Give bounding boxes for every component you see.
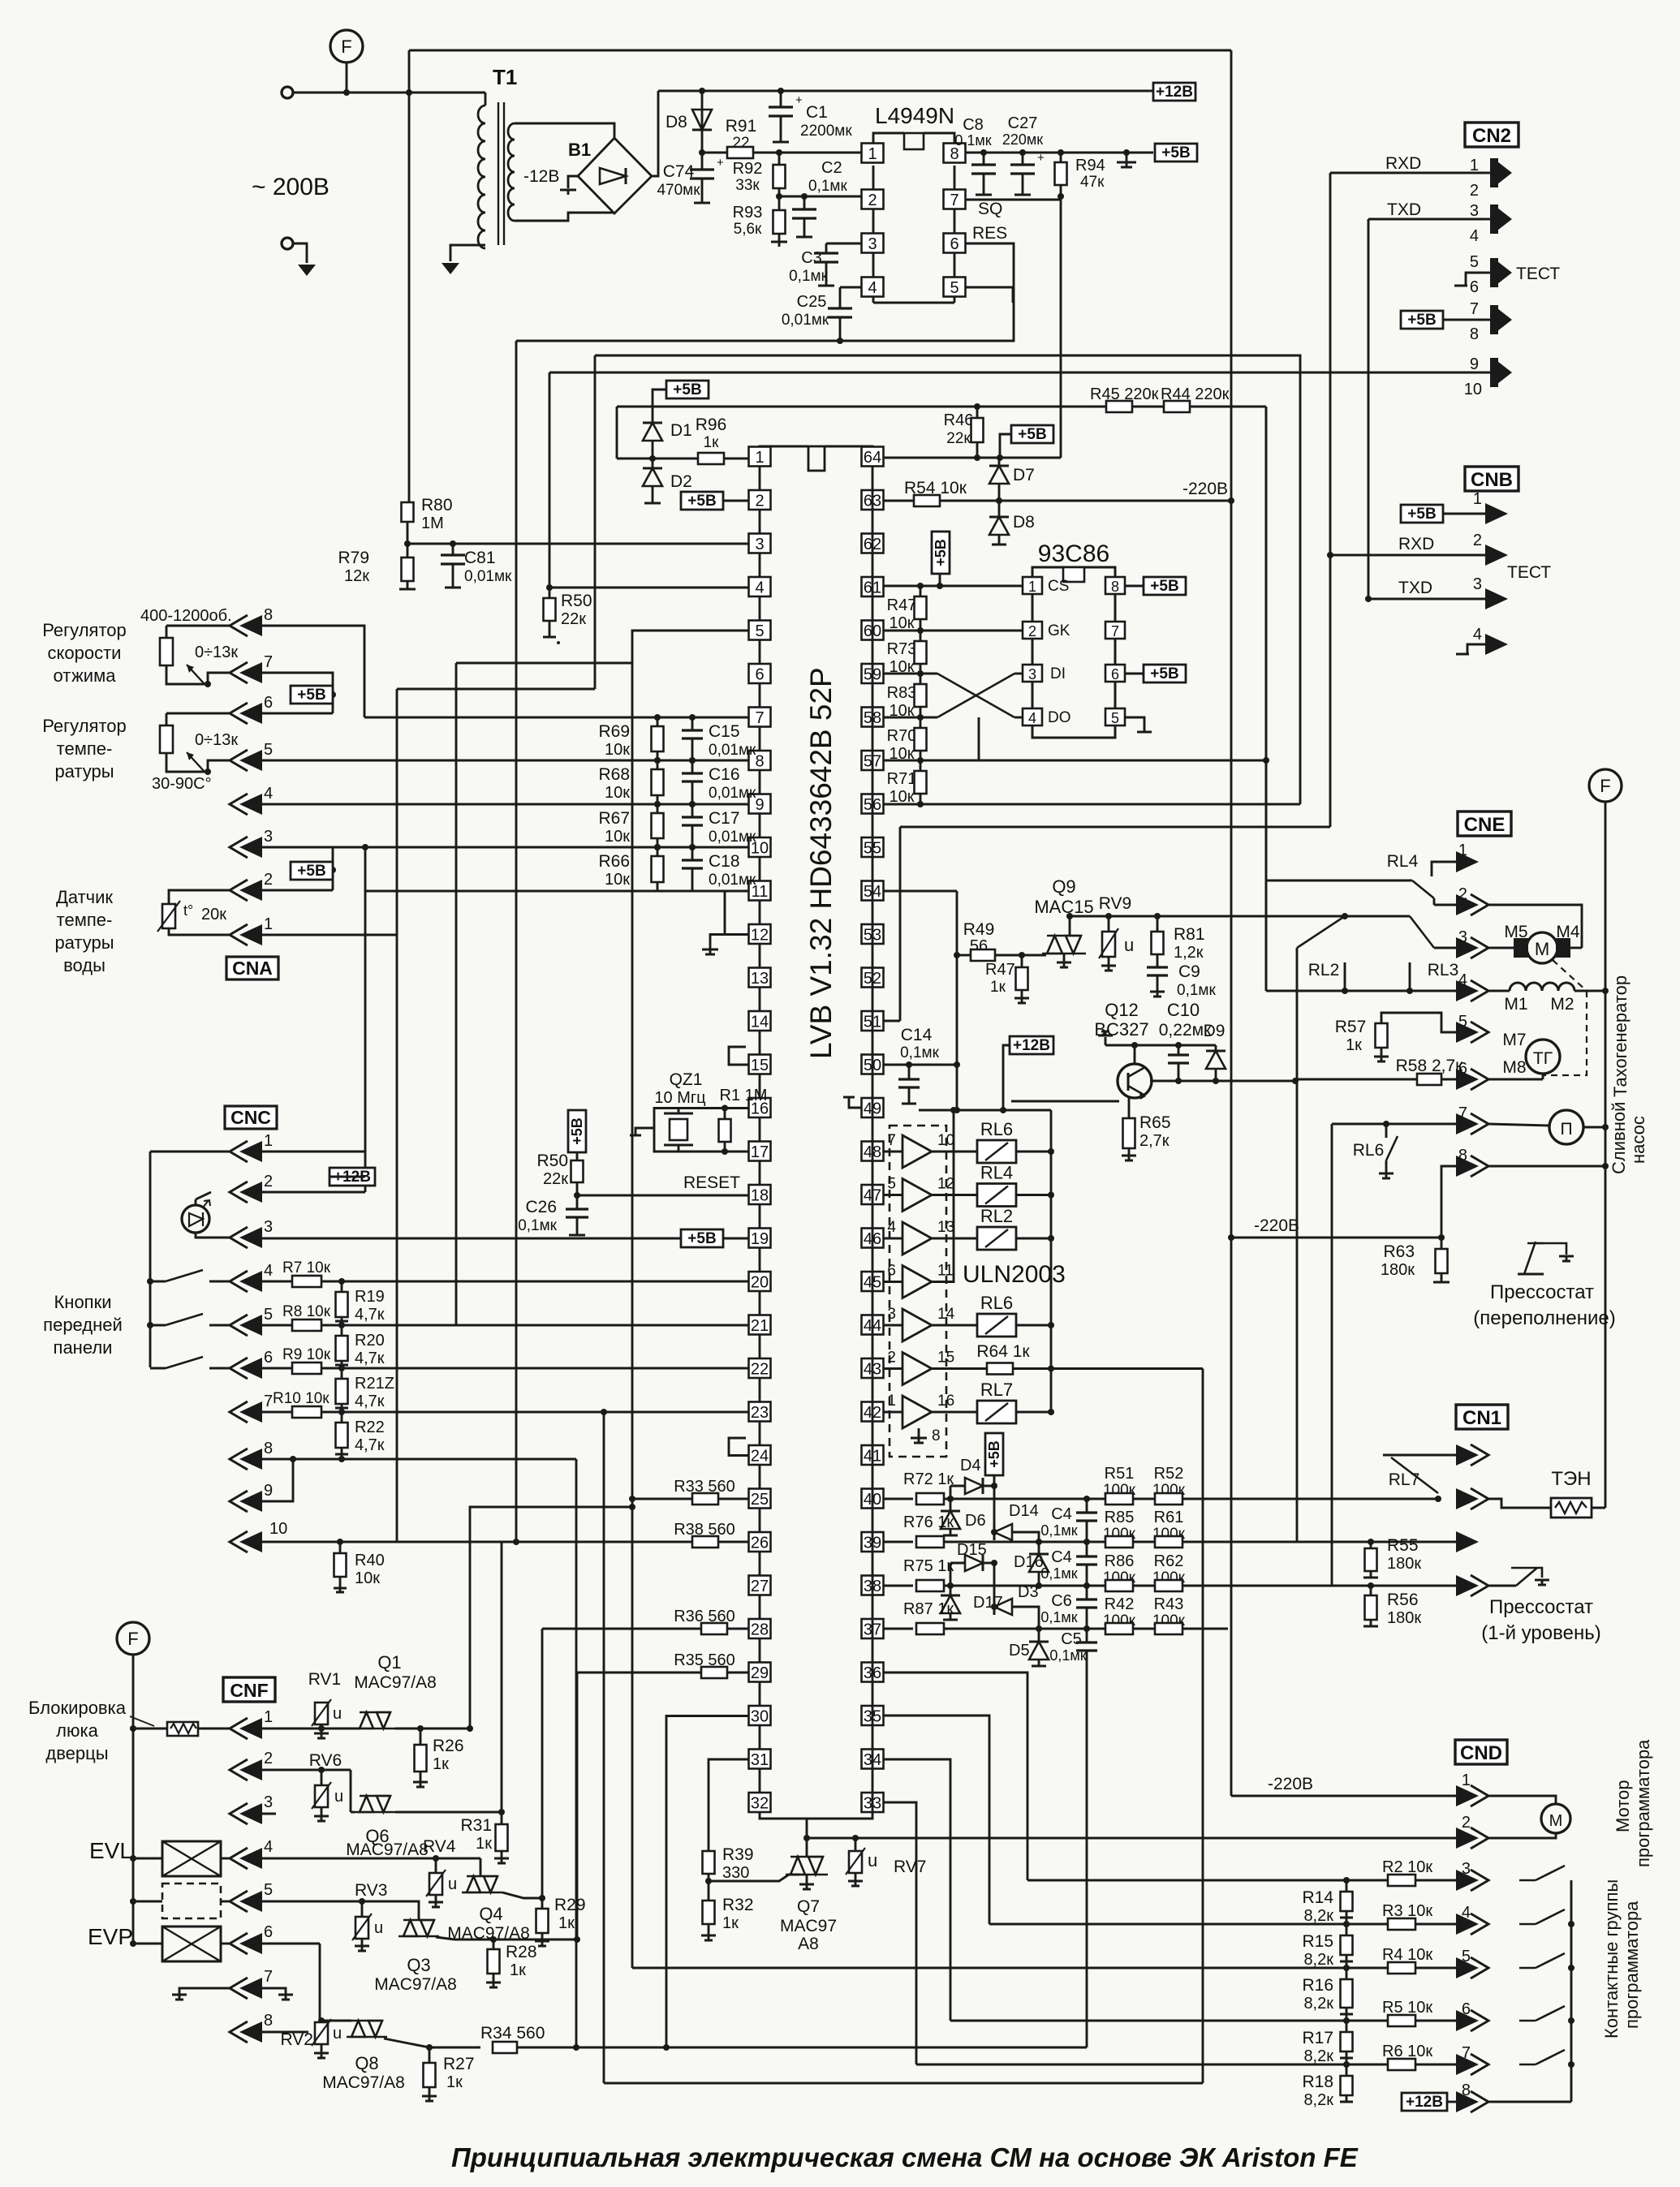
svg-text:R49: R49 [963, 920, 995, 939]
svg-text:5: 5 [1111, 710, 1119, 726]
wire pin10b line [365, 890, 748, 893]
wire CNE8 line [1441, 1166, 1456, 1238]
pin 62 U2 [862, 534, 884, 553]
door lock heater [130, 1725, 136, 1732]
svg-text:8: 8 [264, 2012, 273, 2030]
pin 31 U2 [749, 1750, 771, 1769]
svg-text:22к: 22к [543, 1170, 568, 1188]
wire pin11 pin12 bracket [725, 891, 748, 935]
wire pin34 route [883, 1759, 950, 2021]
wire bottom bus CND6 [950, 2020, 1346, 2022]
connector CNC box [225, 1106, 277, 1129]
pin 4 U2 [749, 577, 771, 596]
svg-text:C5: C5 [1061, 1630, 1082, 1648]
pin 46 U2 [862, 1229, 884, 1248]
svg-text:R18: R18 [1302, 2073, 1333, 2091]
svg-text:14: 14 [937, 1306, 955, 1323]
power +5B pin19 [681, 1229, 723, 1247]
connector CNC pin8 [230, 1449, 248, 1470]
pin 20 U2 [749, 1272, 771, 1291]
switch programmer 5 [1519, 1953, 1571, 1968]
pin 1 L4949 [862, 144, 884, 163]
svg-text:C14: C14 [901, 1026, 933, 1044]
svg-text:400-1200об.: 400-1200об. [140, 607, 232, 625]
connector CN1 box [1456, 1405, 1508, 1429]
svg-text:R93: R93 [733, 204, 763, 222]
svg-text:C1: C1 [806, 103, 828, 122]
svg-text:R73: R73 [887, 640, 917, 658]
svg-text:R28: R28 [506, 1943, 537, 1961]
svg-text:5: 5 [887, 1176, 896, 1193]
connector CNF pin4 [230, 1848, 248, 1869]
svg-text:64: 64 [864, 449, 881, 467]
svg-text:RV1: RV1 [308, 1670, 341, 1689]
svg-text:R2 10к: R2 10к [1382, 1858, 1432, 1876]
svg-text:10: 10 [937, 1132, 954, 1149]
svg-text:EVL: EVL [89, 1838, 132, 1863]
svg-text:Q9: Q9 [1052, 876, 1075, 897]
svg-text:+5B: +5B [933, 539, 949, 566]
pin 33 U2 [862, 1793, 884, 1812]
svg-text:1: 1 [264, 1708, 273, 1726]
svg-text:4: 4 [264, 1262, 273, 1280]
svg-text:R15: R15 [1302, 1932, 1333, 1951]
svg-text:10: 10 [1464, 381, 1482, 398]
svg-text:SQ: SQ [978, 200, 1002, 218]
svg-text:22: 22 [751, 1361, 769, 1379]
svg-text:8,2к: 8,2к [1303, 1907, 1333, 1925]
connector CNC pin3 [230, 1227, 248, 1248]
svg-text:3: 3 [1458, 928, 1467, 946]
svg-text:7: 7 [950, 192, 958, 209]
svg-text:6: 6 [887, 1263, 896, 1280]
svg-text:M1: M1 [1504, 995, 1527, 1014]
svg-text:RL6: RL6 [980, 1293, 1013, 1313]
wire RES bus [516, 243, 1014, 341]
connector CNA pin8 [230, 615, 248, 636]
svg-text:2,7к: 2,7к [1139, 1132, 1170, 1150]
wire TXD CNB [1368, 598, 1485, 601]
svg-text:10к: 10к [605, 784, 630, 802]
valve EVL [130, 1855, 136, 1862]
svg-text:D6: D6 [965, 1512, 986, 1530]
svg-text:R17: R17 [1302, 2029, 1333, 2047]
wire CNF4 line [221, 1858, 230, 1860]
svg-text:R67: R67 [598, 809, 630, 828]
svg-text:1к: 1к [476, 1835, 492, 1853]
pin 37 U2 [862, 1619, 884, 1638]
node F right circle [1589, 769, 1622, 802]
svg-text:EVP: EVP [88, 1924, 133, 1949]
wire RXD line [1330, 172, 1485, 174]
svg-text:CNC: CNC [230, 1107, 271, 1128]
pin 4 L4949 [862, 278, 884, 297]
svg-text:4,7к: 4,7к [355, 1393, 385, 1410]
wire top border [409, 50, 1231, 52]
wire CND3 line [1346, 1879, 1456, 1882]
svg-text:R46: R46 [944, 411, 974, 429]
IC U4 ULN2003 dashed box [890, 1126, 946, 1457]
wire CNF7 stubs [179, 1988, 230, 1995]
connector CNA pin3 [230, 837, 248, 858]
wire bottom bus CND3 [1027, 1879, 1346, 1882]
svg-text:17: 17 [751, 1143, 769, 1161]
wire pin56 line [883, 803, 1300, 806]
power +5B top [1155, 144, 1197, 161]
svg-text:19: 19 [751, 1230, 769, 1248]
svg-text:9: 9 [1470, 355, 1479, 373]
relay contact right [1345, 915, 1410, 918]
wire RV9 rail [1070, 915, 1345, 918]
svg-text:R26: R26 [433, 1737, 464, 1755]
svg-text:33к: 33к [735, 177, 760, 194]
svg-text:30: 30 [751, 1708, 769, 1726]
svg-text:6: 6 [1470, 278, 1479, 296]
power +12B CND8 [1402, 2093, 1447, 2111]
svg-text:~ 200B: ~ 200B [252, 174, 330, 200]
svg-text:(1-й уровень): (1-й уровень) [1481, 1622, 1600, 1644]
svg-text:TXD: TXD [1387, 200, 1421, 219]
svg-text:22к: 22к [561, 610, 586, 628]
svg-text:+5B: +5B [297, 863, 325, 880]
svg-text:M8: M8 [1502, 1058, 1526, 1077]
connector CNC pin10 [230, 1531, 248, 1552]
wire CNA7 to +5B [262, 673, 333, 713]
svg-text:2: 2 [868, 192, 877, 209]
svg-text:R47: R47 [887, 596, 917, 614]
wire CNC9 [262, 1459, 293, 1501]
svg-text:1: 1 [755, 449, 764, 467]
wire CNE7 to pump [1488, 1124, 1550, 1126]
wire pin8/+5V line [966, 152, 1153, 154]
svg-text:6: 6 [264, 694, 273, 712]
connector CNC pin6 [230, 1358, 248, 1379]
connector CNA pin6 [230, 703, 248, 724]
pin 6 93C86 [1105, 665, 1125, 682]
wire CND7 line [1346, 2064, 1456, 2066]
svg-text:10: 10 [269, 1520, 287, 1538]
wire pin57 to x1560 [979, 760, 1266, 762]
svg-text:1: 1 [264, 915, 273, 933]
svg-text:R69: R69 [598, 722, 630, 741]
switch programmer 6 [1519, 2006, 1571, 2021]
wire +12B box lead [330, 1176, 365, 1178]
wire CNE2 to motor M4 [1488, 905, 1582, 941]
pin 26 U2 [749, 1532, 771, 1552]
varistor RV3 [359, 1898, 365, 1905]
svg-text:ратуры: ратуры [54, 761, 114, 781]
svg-text:2: 2 [264, 871, 273, 889]
svg-text:RL4: RL4 [1387, 852, 1419, 871]
svg-text:R22: R22 [355, 1419, 385, 1436]
svg-text:1: 1 [1473, 490, 1482, 508]
valve EVP [130, 1940, 136, 1947]
svg-text:Q1: Q1 [377, 1652, 401, 1673]
svg-text:1: 1 [264, 1132, 273, 1150]
svg-text:4: 4 [1028, 710, 1036, 726]
svg-text:RL6: RL6 [1353, 1141, 1385, 1160]
svg-text:3: 3 [1473, 575, 1482, 593]
svg-text:Прессостат: Прессостат [1490, 1281, 1594, 1303]
pin 12 U2 [749, 924, 771, 944]
svg-text:D7: D7 [1013, 466, 1035, 484]
svg-text:+5B: +5B [1407, 312, 1436, 329]
svg-text:программатора: программатора [1633, 1739, 1653, 1867]
svg-text:1: 1 [1462, 1772, 1471, 1789]
wire CN1-1 line [1383, 1454, 1456, 1457]
svg-text:6: 6 [755, 666, 764, 684]
wire CN1-2 line [1456, 1488, 1479, 1509]
svg-text:R58 2,7к: R58 2,7к [1396, 1057, 1464, 1075]
wire CNF6 line [262, 1943, 320, 1945]
wire bus y459 to CN2 9/10 [549, 372, 1490, 374]
svg-text:Тахогенератор: Тахогенератор [1610, 975, 1630, 1097]
svg-text:R42: R42 [1105, 1595, 1135, 1613]
svg-text:0,1мк: 0,1мк [1040, 1565, 1077, 1582]
wire Q12 base [1011, 1100, 1119, 1103]
wire DI line [1014, 673, 1023, 675]
svg-text:R71: R71 [887, 770, 917, 788]
svg-text:+12B: +12B [1156, 84, 1193, 101]
pin 53 U2 [862, 924, 884, 944]
svg-text:0,1мк: 0,1мк [1040, 1522, 1077, 1539]
svg-text:24: 24 [751, 1448, 769, 1466]
svg-text:D9: D9 [1204, 1022, 1226, 1040]
svg-text:R65: R65 [1139, 1113, 1171, 1132]
svg-text:RV7: RV7 [894, 1858, 926, 1876]
svg-text:4: 4 [264, 1838, 273, 1856]
wire pin31 to R39 [709, 1759, 748, 1851]
wire y1857 Q1 gate bus [470, 1507, 632, 1729]
wire CNA1 line [262, 934, 397, 936]
svg-text:+5B: +5B [1018, 426, 1046, 443]
svg-text:M7: M7 [1502, 1031, 1526, 1049]
svg-text:ТЭН: ТЭН [1551, 1468, 1591, 1490]
wire bus y849 [397, 688, 595, 691]
svg-text:панели: панели [54, 1337, 113, 1358]
power +5B vertical eeprom [932, 532, 950, 574]
svg-text:Q12: Q12 [1105, 1000, 1139, 1020]
svg-text:1к: 1к [446, 2073, 463, 2091]
svg-text:CN2: CN2 [1472, 125, 1511, 147]
dashed tacho box [1553, 960, 1587, 991]
svg-text:R14: R14 [1302, 1888, 1333, 1907]
svg-text:RXD: RXD [1385, 154, 1421, 173]
pin 56 U2 [862, 794, 884, 814]
svg-text:R63: R63 [1383, 1242, 1415, 1261]
wire CNE7 line [1332, 1123, 1456, 1126]
svg-text:330: 330 [722, 1864, 749, 1882]
svg-text:0,1мк: 0,1мк [954, 132, 991, 149]
svg-text:0,1мк: 0,1мк [900, 1044, 939, 1061]
wire CNC left bracket [149, 1152, 152, 1367]
switch button6 [150, 1367, 166, 1370]
wire bus y501 R45 R44 [617, 406, 1266, 408]
wire Q3 gate join [436, 1937, 454, 1939]
svg-text:5: 5 [1470, 253, 1479, 271]
triac Q8 [347, 2036, 387, 2038]
wire pin5 jog [456, 631, 748, 663]
svg-text:0,1мк: 0,1мк [1040, 1609, 1077, 1625]
svg-text:3: 3 [868, 235, 877, 253]
svg-text:D5: D5 [1009, 1642, 1030, 1660]
wire pin15 stub [729, 1047, 748, 1065]
svg-text:+12В: +12В [1013, 1037, 1050, 1054]
svg-text:R96: R96 [696, 415, 727, 434]
svg-text:MAC97/A8: MAC97/A8 [374, 1975, 457, 1994]
node F bottom circle [117, 1622, 149, 1655]
ground transformer [442, 263, 459, 274]
pin 6 L4949 [944, 234, 966, 253]
ground bridge left vertex [568, 176, 578, 188]
pin 4 93C86 [1023, 708, 1042, 725]
svg-text:7: 7 [755, 709, 764, 727]
pin 36 U2 [862, 1663, 884, 1682]
wire Q8 out R34 [384, 2038, 429, 2047]
wire -220V line mid [1231, 1237, 1441, 1239]
wire CNC8 [262, 1458, 576, 1461]
pin 64 U2 [862, 447, 884, 467]
svg-text:2: 2 [1473, 532, 1482, 549]
wire 93C86 pin5 ground [1125, 717, 1144, 732]
connector CNA pin7 [230, 662, 248, 683]
svg-text:R92: R92 [733, 160, 763, 178]
pin 23 U2 [749, 1402, 771, 1422]
wire pin49 stub [849, 1097, 862, 1108]
svg-text:25: 25 [751, 1491, 769, 1509]
svg-text:C81: C81 [464, 549, 496, 567]
svg-text:LVB V1.32 HD6433642B 52P: LVB V1.32 HD6433642B 52P [804, 667, 838, 1059]
svg-text:дверцы: дверцы [45, 1743, 108, 1763]
buffer ULN in5 [883, 1194, 902, 1196]
wire CNF2 line [262, 1769, 351, 1772]
IC U2 HD6433642B top [760, 446, 808, 447]
wire bottom bus CND7 [916, 2064, 1346, 2066]
svg-text:CNE: CNE [1464, 814, 1506, 836]
tacho generator TG [1526, 1040, 1560, 1074]
svg-text:4,7к: 4,7к [355, 1436, 385, 1454]
pin 48 U2 [862, 1142, 884, 1161]
svg-text:u: u [1124, 935, 1134, 955]
pin 15 U2 [749, 1055, 771, 1074]
svg-text:RESET: RESET [683, 1173, 740, 1192]
wire bottom bus y2567 [604, 2082, 1203, 2085]
svg-text:1к: 1к [558, 1914, 575, 1932]
wire CNF5 line [262, 1901, 404, 1903]
wire CNF8 line [262, 2031, 308, 2034]
svg-text:0,01мк: 0,01мк [464, 568, 512, 585]
wire Q12 top to C10 rail [1134, 1045, 1136, 1064]
svg-text:3: 3 [887, 1306, 896, 1323]
svg-text:u: u [333, 2025, 342, 2043]
connector CNF pin2 [230, 1759, 248, 1780]
connector CNF pin6 [230, 1933, 248, 1954]
svg-text:4,7к: 4,7к [355, 1350, 385, 1367]
svg-text:13: 13 [751, 970, 769, 988]
svg-text:RL2: RL2 [980, 1206, 1013, 1226]
connector CNE box [1458, 812, 1511, 836]
wire R64 down bus [1202, 1369, 1204, 2084]
wire +12V rail top [658, 90, 1153, 93]
wire pin39 line [883, 1541, 913, 1543]
wire pin7 line [364, 717, 748, 719]
svg-text:+5B: +5B [687, 493, 716, 510]
svg-text:10к: 10к [605, 741, 630, 759]
svg-text:R7 10к: R7 10к [282, 1259, 331, 1276]
connector CNA pin2 [230, 880, 248, 901]
switch programmer 3 [1519, 1866, 1571, 1880]
svg-text:R80: R80 [421, 496, 453, 514]
svg-text:0,01мк: 0,01мк [782, 312, 829, 329]
svg-text:+5B: +5B [986, 1440, 1002, 1468]
svg-text:D4: D4 [960, 1457, 981, 1475]
svg-text:RL2: RL2 [1308, 961, 1340, 979]
svg-text:u: u [374, 1919, 383, 1937]
connector CNF pin8 [230, 2021, 248, 2043]
pin 41 U2 [862, 1445, 884, 1465]
svg-text:0,1мк: 0,1мк [789, 268, 828, 285]
svg-text:0,01мк: 0,01мк [709, 742, 756, 759]
svg-text:GK: GK [1048, 622, 1070, 639]
connector CNC pin2 [230, 1182, 248, 1203]
svg-text:RV2: RV2 [281, 2030, 313, 2049]
svg-text:4,7к: 4,7к [355, 1306, 385, 1324]
connector CNA pin5 [230, 750, 248, 771]
svg-text:ТЕСТ: ТЕСТ [1516, 265, 1560, 283]
svg-text:4: 4 [1470, 227, 1479, 245]
connector CNC pin7 [230, 1401, 248, 1423]
wire secondary bottom [515, 213, 614, 221]
svg-text:7: 7 [1458, 1104, 1467, 1122]
connector CNA pin4 [230, 794, 248, 815]
svg-text:8: 8 [264, 606, 273, 624]
pin 61 U2 [862, 577, 884, 596]
svg-text:3: 3 [1028, 666, 1036, 682]
svg-text:Контактные группы: Контактные группы [1601, 1879, 1622, 2038]
svg-text:+: + [717, 156, 724, 170]
svg-text:R81: R81 [1174, 925, 1205, 944]
pin 45 U2 [862, 1272, 884, 1291]
buffer ULN in7 [883, 1151, 902, 1153]
pin 5 U2 [749, 621, 771, 640]
wire pin37 line [883, 1628, 913, 1630]
wire bridge output up [652, 91, 658, 176]
svg-text:Кнопки: Кнопки [54, 1292, 111, 1312]
wire pin24 stub [729, 1438, 748, 1456]
power +5B D1 [666, 381, 709, 398]
switch button4 [150, 1281, 166, 1283]
svg-text:180к: 180к [1387, 1609, 1421, 1627]
svg-text:R32: R32 [722, 1896, 754, 1914]
svg-text:0,1мк: 0,1мк [1177, 982, 1216, 999]
svg-text:-220В: -220В [1254, 1216, 1299, 1235]
svg-text:C3: C3 [801, 249, 822, 267]
wire ULN out11 jog [932, 1110, 954, 1282]
svg-text:Q7: Q7 [797, 1897, 820, 1916]
wire x711 Q3 gate bus [576, 1673, 579, 1939]
svg-text:насос: насос [1628, 1116, 1648, 1164]
svg-text:8,2к: 8,2к [1303, 2047, 1333, 2065]
svg-text:9: 9 [755, 796, 764, 814]
svg-text:D8: D8 [1013, 513, 1035, 532]
wire y1019 bus [900, 826, 1330, 829]
power +5B CNA2 [291, 862, 333, 880]
wire M4 right [1570, 947, 1582, 949]
power +5B CNA [291, 686, 333, 704]
svg-text:30-90C°: 30-90C° [152, 775, 212, 793]
connector CNA pin1 [230, 924, 248, 945]
pin 8 93C86 [1105, 577, 1125, 594]
